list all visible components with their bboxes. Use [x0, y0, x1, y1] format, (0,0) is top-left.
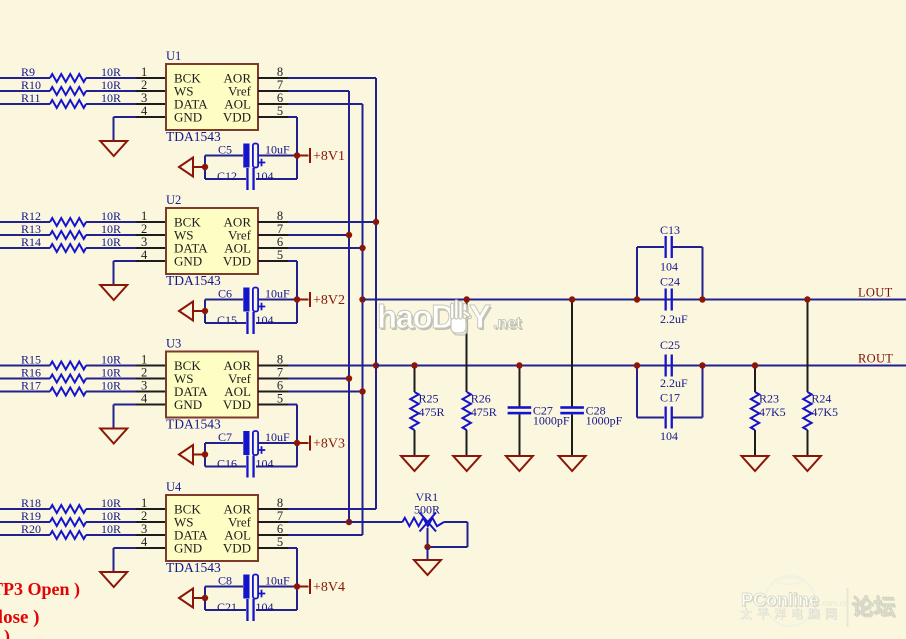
svg-text:10R: 10R — [101, 91, 121, 105]
svg-text:10uF: 10uF — [265, 143, 290, 157]
svg-text:4: 4 — [141, 535, 148, 549]
svg-text:R11: R11 — [21, 91, 41, 105]
svg-text:3: 3 — [141, 91, 147, 105]
svg-text:C13: C13 — [660, 223, 680, 237]
svg-text:4: 4 — [141, 392, 148, 406]
svg-text:VDD: VDD — [223, 254, 251, 269]
svg-text:VDD: VDD — [223, 110, 251, 125]
svg-text:R25: R25 — [419, 392, 439, 406]
svg-text:2: 2 — [141, 78, 147, 92]
svg-text:6: 6 — [277, 379, 283, 393]
svg-text:104: 104 — [660, 429, 678, 443]
svg-text:47K5: 47K5 — [811, 405, 838, 419]
svg-text:3: 3 — [141, 379, 147, 393]
svg-text:4: 4 — [141, 248, 148, 262]
svg-text:10R: 10R — [101, 509, 121, 523]
svg-text:10R: 10R — [101, 235, 121, 249]
svg-text:R24: R24 — [811, 392, 831, 406]
svg-text:C16: C16 — [217, 457, 237, 471]
svg-text:C6: C6 — [218, 287, 232, 301]
svg-text:R23: R23 — [759, 392, 779, 406]
svg-text:6: 6 — [277, 91, 283, 105]
svg-text:10R: 10R — [101, 65, 121, 79]
svg-text:C7: C7 — [218, 430, 232, 444]
svg-text:10uF: 10uF — [265, 287, 290, 301]
svg-text:U2: U2 — [166, 193, 181, 207]
svg-text:5: 5 — [277, 104, 283, 118]
svg-text:3: 3 — [141, 235, 147, 249]
svg-text:5: 5 — [277, 535, 283, 549]
svg-text:10R: 10R — [101, 379, 121, 393]
svg-text:GND: GND — [174, 397, 202, 412]
svg-text:2.2uF: 2.2uF — [660, 376, 688, 390]
svg-text:): ) — [4, 626, 10, 639]
svg-text:U1: U1 — [166, 49, 181, 63]
svg-text:104: 104 — [256, 313, 274, 327]
svg-text:104: 104 — [256, 169, 274, 183]
svg-text:U3: U3 — [166, 337, 181, 351]
svg-text:C8: C8 — [218, 574, 232, 588]
svg-text:3: 3 — [141, 522, 147, 536]
svg-text:R26: R26 — [471, 392, 491, 406]
svg-text:10uF: 10uF — [265, 430, 290, 444]
svg-text:R10: R10 — [21, 78, 41, 92]
svg-text:GND: GND — [174, 110, 202, 125]
svg-text:10R: 10R — [101, 496, 121, 510]
svg-text:2.2uF: 2.2uF — [660, 312, 688, 326]
svg-text:R15: R15 — [21, 353, 41, 367]
svg-text:R17: R17 — [21, 379, 41, 393]
svg-text:8: 8 — [277, 496, 283, 510]
svg-text:haoD: haoD — [377, 298, 454, 335]
svg-text:1: 1 — [141, 496, 147, 510]
svg-text:10R: 10R — [101, 353, 121, 367]
svg-text:+8V3: +8V3 — [313, 437, 345, 452]
svg-text:104: 104 — [256, 600, 274, 614]
svg-text:10R: 10R — [101, 222, 121, 236]
svg-text:( Close ): ( Close ) — [0, 607, 39, 628]
svg-text:8: 8 — [277, 353, 283, 367]
svg-text:6: 6 — [277, 522, 283, 536]
svg-text:10R: 10R — [101, 209, 121, 223]
svg-text:1: 1 — [141, 209, 147, 223]
svg-text:太平洋电脑网: 太平洋电脑网 — [740, 606, 842, 621]
svg-text:C24: C24 — [660, 275, 680, 289]
svg-text:47K5: 47K5 — [759, 405, 786, 419]
svg-text:2: 2 — [141, 222, 147, 236]
svg-text:ROUT: ROUT — [858, 352, 893, 366]
svg-text:TDA1543: TDA1543 — [166, 417, 221, 432]
svg-text:2: 2 — [141, 509, 147, 523]
svg-text:R12: R12 — [21, 209, 41, 223]
svg-text:VDD: VDD — [223, 541, 251, 556]
svg-text:7: 7 — [277, 222, 283, 236]
svg-text:C21: C21 — [217, 600, 237, 614]
svg-text:GND: GND — [174, 541, 202, 556]
svg-text:VDD: VDD — [223, 397, 251, 412]
svg-text:+8V4: +8V4 — [313, 580, 345, 595]
svg-text:1: 1 — [141, 353, 147, 367]
svg-text:10R: 10R — [101, 78, 121, 92]
svg-text:5: 5 — [277, 392, 283, 406]
svg-text:TDA1543: TDA1543 — [166, 273, 221, 288]
svg-text:R19: R19 — [21, 509, 41, 523]
svg-text:R9: R9 — [21, 65, 35, 79]
svg-text:U4: U4 — [166, 480, 182, 494]
svg-text:7: 7 — [277, 366, 283, 380]
svg-text:10R: 10R — [101, 522, 121, 536]
svg-text:C12: C12 — [217, 169, 237, 183]
svg-text:104: 104 — [256, 457, 274, 471]
svg-text:2: 2 — [141, 366, 147, 380]
svg-text:R18: R18 — [21, 496, 41, 510]
svg-text:R16: R16 — [21, 366, 41, 380]
svg-text:R20: R20 — [21, 522, 41, 536]
svg-text:475R: 475R — [419, 405, 445, 419]
svg-text:1000pF: 1000pF — [586, 414, 623, 428]
svg-text:8: 8 — [277, 65, 283, 79]
svg-text:8: 8 — [277, 209, 283, 223]
svg-text:C5: C5 — [218, 143, 232, 157]
svg-text:Y: Y — [469, 298, 491, 335]
svg-text:+8V2: +8V2 — [313, 293, 345, 308]
svg-text:104: 104 — [660, 260, 678, 274]
svg-text:475R: 475R — [471, 405, 497, 419]
svg-text:5: 5 — [277, 248, 283, 262]
svg-text:10uF: 10uF — [265, 574, 290, 588]
svg-text:6: 6 — [277, 235, 283, 249]
svg-text:LOUT: LOUT — [858, 286, 893, 300]
svg-text:7: 7 — [277, 509, 283, 523]
svg-text:C17: C17 — [660, 391, 680, 405]
svg-text:TDA1543: TDA1543 — [166, 129, 221, 144]
svg-text:1: 1 — [141, 65, 147, 79]
svg-text:C15: C15 — [217, 313, 237, 327]
svg-text:500R: 500R — [414, 503, 440, 517]
svg-text:C25: C25 — [660, 338, 680, 352]
svg-text:4: 4 — [141, 104, 148, 118]
svg-text:论坛: 论坛 — [852, 595, 896, 620]
svg-text:7: 7 — [277, 78, 283, 92]
svg-text:R14: R14 — [21, 235, 41, 249]
svg-text:GND: GND — [174, 254, 202, 269]
svg-text:.net: .net — [493, 315, 522, 332]
svg-text:(TP3 Open ): (TP3 Open ) — [0, 579, 80, 600]
svg-text:10R: 10R — [101, 366, 121, 380]
svg-text:R13: R13 — [21, 222, 41, 236]
svg-text:+8V1: +8V1 — [313, 149, 345, 164]
svg-text:1000pF: 1000pF — [533, 414, 570, 428]
svg-text:TDA1543: TDA1543 — [166, 560, 221, 575]
